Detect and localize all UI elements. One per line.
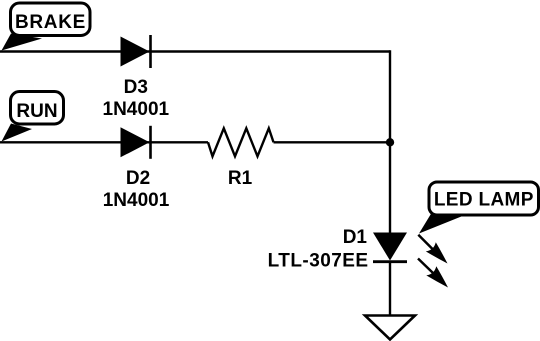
svg-text:D2: D2 [126,168,150,189]
svg-text:D1: D1 [343,227,368,248]
ground [365,316,415,340]
wire: vertical bus from corner down to LED [389,50,391,233]
light arrow 1 [418,235,447,264]
svg-text:D3: D3 [124,77,148,98]
wire: LED cathode to ground [389,261,391,316]
svg-text:LED LAMP: LED LAMP [434,190,534,211]
svg-text:1N4001: 1N4001 [103,99,170,120]
svg-text:BRAKE: BRAKE [15,12,86,33]
diode D3 [103,35,170,120]
svg-text:LTL-307EE: LTL-307EE [268,251,369,272]
light arrow 2 [418,259,448,288]
wire: resistor to junction [274,141,391,143]
resistor R1 [208,128,274,189]
svg-text:1N4001: 1N4001 [103,190,170,211]
callout LED LAMP [419,182,539,234]
LED D1 [268,227,407,272]
node: junction dot [386,138,394,146]
wire: RUN input to resistor [0,141,208,143]
svg-text:R1: R1 [228,168,253,189]
diode D2 [103,126,170,211]
callout BRAKE [2,3,91,51]
svg-text:RUN: RUN [16,101,57,122]
wire: BRAKE input to corner [0,50,390,52]
callout RUN [2,92,64,142]
